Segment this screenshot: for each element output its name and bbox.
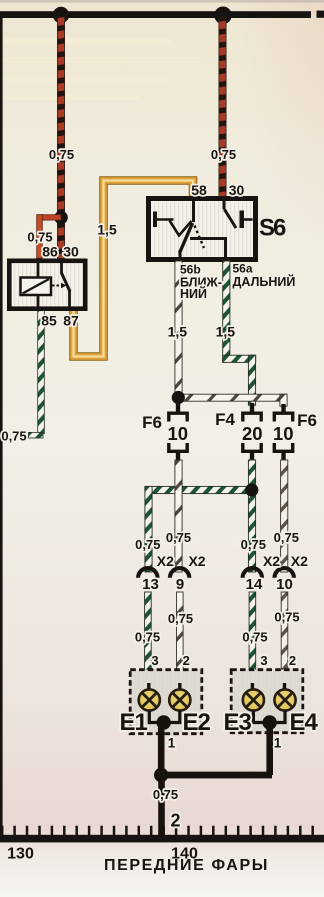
wire : black ground down to bus terminal 140 xyxy=(158,779,165,836)
relay internals : pin 87 lead xyxy=(68,291,71,309)
headlamp unit box E1/E2 dashed xyxy=(130,670,202,734)
switch S6 dimmer box xyxy=(149,199,256,260)
lamp E4 high beam right xyxy=(274,689,295,710)
S6 internals : dashed linkage xyxy=(195,226,205,249)
lamp E3 low beam right xyxy=(243,689,264,710)
svg-text:1,5: 1,5 xyxy=(97,222,117,238)
S6 internals : pin 56b lead xyxy=(179,250,182,260)
wire : white striped from F6 left down to connector 9 xyxy=(175,460,182,572)
headlamp unit box E3/E4 dashed xyxy=(231,670,303,733)
svg-text:86: 86 xyxy=(42,244,58,260)
wire : green striped connector 13 to lamp E1 xyxy=(145,592,152,685)
relay internals : pin 86 lead xyxy=(37,262,40,278)
connector X2 pin 10 socket xyxy=(274,568,293,578)
node : junction dot low-beam split xyxy=(172,391,185,404)
svg-text:56a: 56a xyxy=(233,262,253,276)
svg-text:ДАЛЬНИЙ: ДАЛЬНИЙ xyxy=(233,274,296,289)
wire : white striped branch to right fuse F6 xyxy=(178,394,287,406)
wire : top supply bus 30 xyxy=(0,11,324,18)
relay K headlamp relay box xyxy=(9,261,85,309)
svg-text:130: 130 xyxy=(7,846,34,863)
wire : green striped from junction down to connector 14 xyxy=(248,490,255,572)
wire : red/black striped feed to relay pin 30 xyxy=(57,17,64,259)
svg-text:E1: E1 xyxy=(120,709,148,736)
svg-text:10: 10 xyxy=(168,423,189,444)
relay internals : pin 30 lead xyxy=(60,262,63,274)
node : junction dot left bus tap xyxy=(53,7,69,23)
svg-text:3: 3 xyxy=(151,653,158,668)
S6 internals : lever to 56b xyxy=(180,223,193,253)
svg-text:9: 9 xyxy=(176,576,184,593)
wire : red/black striped feed to switch S6 pin 30 xyxy=(219,17,226,197)
svg-text:0,75: 0,75 xyxy=(211,147,236,162)
svg-text:1: 1 xyxy=(168,736,176,751)
svg-text:НИЙ: НИЙ xyxy=(180,286,207,301)
lamp E1 low beam left xyxy=(139,689,160,710)
fuse F6 left 10A xyxy=(169,400,187,462)
svg-text:13: 13 xyxy=(142,576,159,593)
svg-text:56b: 56b xyxy=(180,262,201,276)
S6 internals : right lever xyxy=(225,210,237,229)
relay internals : actuation dashed arrow xyxy=(52,283,67,289)
svg-text:0,75: 0,75 xyxy=(274,610,299,625)
svg-text:3: 3 xyxy=(260,653,267,668)
fuse F6 right 10A xyxy=(274,404,292,462)
wire : black ground from E1/E2 node down xyxy=(158,726,165,778)
svg-text:2: 2 xyxy=(183,653,190,668)
wire : white striped connector 9 to lamp E2 xyxy=(177,592,184,685)
svg-text:0,75: 0,75 xyxy=(241,537,266,552)
S6 internals : left fixed contact xyxy=(153,212,174,228)
ground bus tick marks xyxy=(2,826,313,835)
relay internals : coil winding xyxy=(21,278,52,296)
svg-text:20: 20 xyxy=(242,423,263,444)
svg-text:30: 30 xyxy=(63,244,79,260)
svg-text:0,75: 0,75 xyxy=(168,611,193,626)
relay internals : contact lever xyxy=(62,273,71,292)
svg-text:30: 30 xyxy=(229,182,245,198)
S6 internals : right fixed contact xyxy=(240,211,253,229)
svg-text:X2: X2 xyxy=(263,553,280,569)
svg-text:0,75: 0,75 xyxy=(135,630,160,645)
wire : grey striped from F6 right down to connector 10 xyxy=(281,460,288,572)
svg-text:E3: E3 xyxy=(224,709,252,736)
wire : lamp E1/E2 commons to node xyxy=(149,710,180,723)
wire : black stubs into lamps xyxy=(149,683,285,690)
svg-text:0,75: 0,75 xyxy=(274,530,299,545)
wire : green/white striped from S6 56a to fuse F4 xyxy=(223,261,256,405)
svg-text:0,75: 0,75 xyxy=(242,630,267,645)
svg-text:14: 14 xyxy=(246,576,263,593)
S6 internals : V linkage xyxy=(170,221,192,236)
node : junction dot right bus tap xyxy=(214,7,232,25)
fuse F4 20A xyxy=(243,403,261,462)
wire : white/black striped from S6 56b down to junction xyxy=(175,261,182,398)
svg-text:1,5: 1,5 xyxy=(216,324,236,340)
S6 internals : pin 58 lead xyxy=(192,199,195,222)
node : junction dot right lamp common xyxy=(263,715,277,729)
paper scan streaks top left xyxy=(0,38,200,100)
wire : green/white striped from relay 85 to ground off-page xyxy=(29,309,45,438)
node : junction dot ground join xyxy=(154,768,168,782)
svg-text:S6: S6 xyxy=(259,215,286,242)
wire : green striped connector 14 to lamp E3 xyxy=(249,592,256,685)
svg-text:ПЕРЕДНИЕ ФАРЫ: ПЕРЕДНИЕ ФАРЫ xyxy=(104,857,269,874)
svg-text:X2: X2 xyxy=(188,553,205,569)
connector X2 pin 14 socket xyxy=(243,568,262,578)
wire : left frame line xyxy=(0,12,3,839)
svg-text:F4: F4 xyxy=(215,410,235,429)
wire : black ground from E3/E4 node and joining bar xyxy=(161,726,273,778)
svg-text:2: 2 xyxy=(170,811,180,831)
svg-text:1,5: 1,5 xyxy=(168,324,188,340)
S6 internals : 56a bar and lead xyxy=(190,239,226,261)
svg-text:2: 2 xyxy=(289,653,296,668)
svg-text:85: 85 xyxy=(41,313,57,329)
svg-text:F6: F6 xyxy=(142,413,162,432)
svg-text:10: 10 xyxy=(276,576,293,593)
svg-text:87: 87 xyxy=(63,313,79,329)
svg-text:X2: X2 xyxy=(291,553,308,569)
svg-text:0,75: 0,75 xyxy=(153,787,178,802)
wire : grey striped connector 10 to lamp E4 xyxy=(281,592,288,685)
wire : green striped from F4 to junction dot xyxy=(248,460,255,490)
node : junction dot above relay xyxy=(54,211,68,225)
lamp E2 high beam left xyxy=(169,689,190,710)
svg-text:10: 10 xyxy=(273,423,294,444)
svg-text:0,75: 0,75 xyxy=(135,537,160,552)
svg-text:E4: E4 xyxy=(290,709,319,736)
svg-text:58: 58 xyxy=(191,182,207,198)
svg-text:E2: E2 xyxy=(183,709,211,736)
paper top edge shading xyxy=(0,0,324,3)
wire : green striped branch left to connector 13 xyxy=(145,486,252,572)
relay internals : pin 85 lead xyxy=(37,295,40,309)
wire : orange 1.5mm from relay 87 up to S6 pin 58 xyxy=(74,181,194,357)
svg-text:0,75: 0,75 xyxy=(166,530,191,545)
wire : lamp E3/E4 commons to node xyxy=(253,710,285,723)
svg-text:0,75: 0,75 xyxy=(49,147,74,162)
svg-text:X2: X2 xyxy=(157,553,174,569)
node : junction dot left lamp common xyxy=(157,715,171,729)
connector X2 pin 9 socket xyxy=(170,568,189,578)
connector X2 pin 13 socket xyxy=(138,568,157,578)
svg-text:0,75: 0,75 xyxy=(27,230,52,245)
wire : red branch to relay pin 86 xyxy=(37,215,61,259)
svg-text:0,75: 0,75 xyxy=(1,429,26,444)
svg-text:F6: F6 xyxy=(297,411,317,430)
wire : bottom ground bus xyxy=(0,835,324,843)
node : junction dot high-beam split xyxy=(245,483,258,496)
svg-text:1: 1 xyxy=(274,736,282,751)
S6 internals : pin 30 lead xyxy=(223,199,226,210)
